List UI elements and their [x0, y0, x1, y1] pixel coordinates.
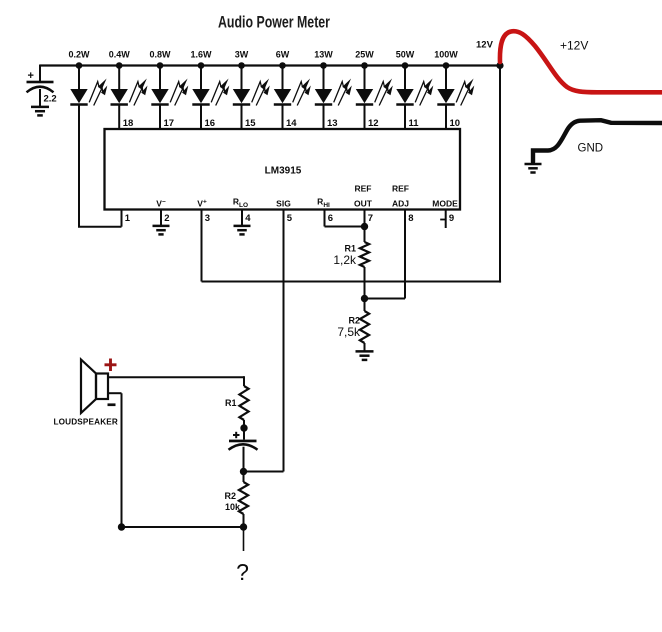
svg-text:REF: REF	[355, 184, 372, 194]
pin label REF ADJ	[392, 184, 409, 209]
wire: LED D9 cathode to IC pin 11	[404, 105, 406, 130]
wire: LED D6 cathode to IC pin 14	[282, 105, 284, 130]
svg-text:11: 11	[409, 118, 420, 129]
svg-text:7,5k: 7,5k	[337, 325, 361, 339]
pin number 8	[408, 213, 413, 224]
svg-text:ADJ: ADJ	[392, 199, 409, 209]
wire: R2 bottom to bottom rail	[243, 514, 245, 527]
wire: LED D7 cathode to IC pin 13	[323, 105, 325, 130]
svg-text:R2: R2	[224, 491, 236, 501]
wire: R1 bottom to R2 top	[364, 267, 366, 311]
pin number 17	[164, 118, 175, 129]
LED D6 (6W)	[274, 66, 311, 106]
label LOUDSPEAKER	[54, 418, 118, 427]
label +12V	[560, 39, 588, 53]
svg-text:50W: 50W	[396, 50, 415, 60]
pin number 11	[409, 118, 420, 129]
pin label RLO	[233, 197, 248, 210]
LED D8 (25W)	[356, 66, 393, 106]
svg-text:LM3915: LM3915	[265, 166, 302, 177]
pin 4 stub	[241, 210, 243, 226]
pin number 16	[205, 118, 216, 129]
svg-text:6W: 6W	[276, 50, 290, 60]
wire: red +12V supply lead	[500, 31, 662, 92]
svg-text:12: 12	[368, 118, 379, 129]
svg-text:17: 17	[164, 118, 175, 129]
title: Audio Power Meter	[218, 14, 330, 32]
node: rail tap 25W	[355, 50, 374, 69]
pin number 12	[368, 118, 379, 129]
op-amp/IC U1 LM3915 body	[105, 129, 461, 210]
pin number 15	[245, 118, 256, 129]
svg-text:25W: 25W	[355, 50, 374, 60]
label GND	[578, 143, 604, 155]
wire: capacitor to junction with SIG	[243, 447, 245, 482]
svg-text:9: 9	[449, 213, 454, 224]
svg-text:13W: 13W	[314, 50, 333, 60]
svg-text:MODE: MODE	[432, 199, 458, 209]
pin number 18	[123, 118, 134, 129]
svg-text:0.8W: 0.8W	[149, 50, 171, 60]
svg-text:SIG: SIG	[276, 199, 291, 209]
wire: LED D2 cathode to IC pin 18	[118, 105, 120, 130]
pin label MODE	[432, 199, 458, 209]
ground at pin 4	[234, 226, 251, 235]
wire: R1 bottom to capacitor	[243, 420, 245, 440]
label ? (unknown connection)	[236, 559, 249, 585]
svg-text:REF: REF	[392, 184, 409, 194]
node: rail tap 13W	[314, 50, 333, 69]
pin 7 stub	[364, 210, 366, 227]
svg-text:2: 2	[164, 213, 169, 224]
wire: 12V rail node down to V+ wire	[499, 66, 501, 283]
pin label REF OUT	[354, 184, 373, 209]
resistor R2 10k	[224, 482, 248, 514]
wire: bottom return rail	[122, 526, 244, 528]
node: rail tap 1.6W	[190, 50, 212, 69]
svg-text:R1: R1	[344, 244, 356, 254]
svg-text:OUT: OUT	[354, 199, 373, 209]
wire: pin 6 RHI to pin 7 REF OUT	[325, 210, 365, 227]
node: 12V junction on rail	[496, 62, 503, 69]
node: junction R1/C+	[240, 424, 247, 431]
svg-text:1.6W: 1.6W	[190, 50, 212, 60]
svg-text:R1: R1	[225, 398, 237, 408]
wire: LED D10 cathode to IC pin 10	[445, 105, 447, 130]
LED D4 (1.6W)	[192, 66, 229, 106]
pin number 10	[450, 118, 461, 129]
svg-text:16: 16	[205, 118, 216, 129]
pin number 9	[449, 213, 454, 224]
pin number 2	[164, 213, 169, 224]
wire: LED D3 cathode to IC pin 17	[159, 105, 161, 130]
node: rail tap 3W	[235, 50, 249, 69]
pin label RHI	[317, 197, 330, 210]
svg-text:Audio Power Meter: Audio Power Meter	[218, 14, 330, 32]
pin number 3	[205, 213, 210, 224]
svg-text:10: 10	[450, 118, 461, 129]
node: rail tap 0.8W	[149, 50, 171, 69]
ground at GND lead	[525, 164, 542, 173]
node: bottom junction right	[240, 523, 247, 530]
svg-text:100W: 100W	[434, 50, 458, 60]
wire: top supply rail	[40, 64, 500, 66]
pin label SIG	[276, 199, 291, 209]
wire: pin 3 V+ to +12V node	[202, 210, 502, 282]
LED D9 (50W)	[396, 66, 433, 106]
node: junction R1/R2/REF ADJ	[361, 295, 368, 302]
pin number 6	[328, 213, 333, 224]
pin number 5	[287, 213, 293, 224]
LED D10 (100W)	[437, 66, 474, 106]
svg-text:1: 1	[125, 213, 131, 224]
ground below R2	[356, 343, 374, 360]
svg-text:LOUDSPEAKER: LOUDSPEAKER	[54, 418, 118, 427]
svg-text:1,2k: 1,2k	[333, 253, 357, 267]
svg-text:8: 8	[408, 213, 413, 224]
LED D5 (3W)	[233, 66, 270, 106]
LED D7 (13W)	[315, 66, 352, 106]
wire: LED D8 cathode to IC pin 12	[364, 105, 366, 130]
svg-text:12V: 12V	[476, 40, 494, 51]
LED D2 (0.4W)	[111, 66, 148, 106]
pin 6 stub	[324, 210, 326, 227]
pin label V-	[156, 199, 166, 209]
loudspeaker symbol	[81, 360, 108, 414]
LED D1 (0.2W)	[70, 66, 107, 106]
wire: LED D1 cathode down and right to pin 1	[78, 105, 122, 227]
resistor R1 (input divider)	[225, 386, 249, 420]
pin 9 stub	[440, 210, 446, 229]
wire: black GND lead	[533, 120, 662, 162]
svg-text:6: 6	[328, 213, 333, 224]
node: bottom junction left	[118, 523, 125, 530]
svg-text:3: 3	[205, 213, 210, 224]
pin 2 stub	[160, 210, 162, 226]
wire: speaker - down to bottom rail	[108, 393, 122, 527]
label 12V	[476, 40, 494, 51]
label + (speaker plus, red)	[105, 359, 117, 372]
pin number 1	[125, 213, 131, 224]
svg-text:13: 13	[327, 118, 338, 129]
svg-text:+: +	[28, 70, 34, 82]
pin number 13	[327, 118, 338, 129]
pin number 7	[368, 213, 373, 224]
svg-text:10k: 10k	[225, 502, 241, 512]
svg-text:5: 5	[287, 213, 293, 224]
svg-text:R2: R2	[348, 316, 360, 326]
pin 5 stub	[283, 210, 285, 472]
svg-text:2.2: 2.2	[44, 94, 57, 105]
ground below capacitor 2.2	[31, 107, 49, 116]
label - (speaker minus)	[108, 403, 116, 406]
capacitor C (polarized, divider)	[229, 432, 258, 450]
node: rail tap 0.2W	[68, 50, 90, 69]
wire: junction right and up to pin 8 REF ADJ	[365, 210, 406, 299]
svg-text:15: 15	[245, 118, 256, 129]
wire: pin 5 SIG down to divider junction	[243, 210, 284, 472]
wire: LED D5 cathode to IC pin 15	[241, 105, 243, 130]
svg-text:3W: 3W	[235, 50, 249, 60]
wire: stub to unknown node	[243, 527, 245, 551]
node: rail tap 0.4W	[109, 50, 131, 69]
svg-text:4: 4	[245, 213, 251, 224]
pin label V+	[197, 199, 207, 209]
ground at pin 2	[153, 226, 170, 235]
capacitor 2.2uF at supply rail	[27, 65, 57, 107]
wire: LED D4 cathode to IC pin 16	[200, 105, 202, 130]
wire: speaker + to R1 top	[108, 376, 244, 386]
node: rail tap 6W	[276, 50, 290, 69]
svg-text:?: ?	[236, 559, 249, 585]
node: junction at pin 7	[361, 223, 368, 230]
svg-text:14: 14	[286, 118, 297, 129]
node: rail tap 100W	[434, 50, 458, 69]
resistor R1 1,2k	[333, 210, 369, 268]
LED D3 (0.8W)	[151, 66, 188, 106]
node: rail tap 50W	[396, 50, 415, 69]
svg-text:0.4W: 0.4W	[109, 50, 131, 60]
svg-text:18: 18	[123, 118, 134, 129]
svg-text:+12V: +12V	[560, 39, 588, 53]
svg-text:GND: GND	[578, 143, 604, 155]
node: junction C/R2/SIG	[240, 468, 247, 475]
svg-text:7: 7	[368, 213, 373, 224]
pin 8 stub	[404, 210, 406, 299]
pin number 4	[245, 213, 251, 224]
svg-text:0.2W: 0.2W	[68, 50, 90, 60]
resistor R2 7,5k	[337, 311, 369, 343]
pin 3 stub	[201, 210, 203, 282]
pin number 14	[286, 118, 297, 129]
